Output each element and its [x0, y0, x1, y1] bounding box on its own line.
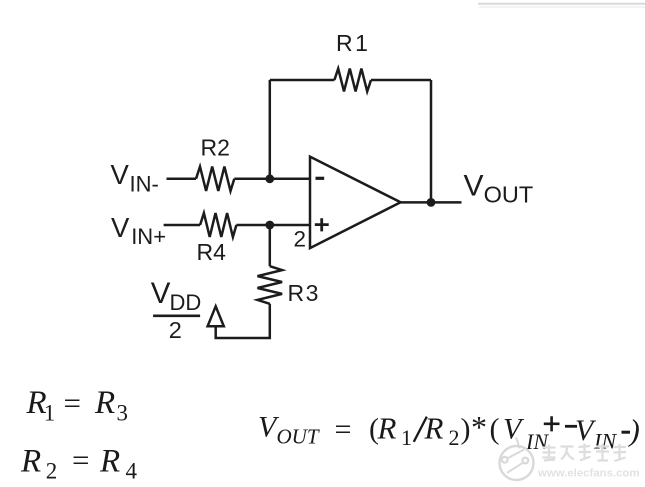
- svg-text:OUT: OUT: [484, 182, 534, 208]
- svg-text:1: 1: [44, 400, 56, 425]
- svg-text:www.elecfans.com: www.elecfans.com: [537, 468, 640, 480]
- wire: non-inverting node down to R3: [269, 225, 272, 266]
- svg-text:3: 3: [117, 400, 129, 425]
- svg-text:=: =: [335, 413, 352, 446]
- svg-text:V: V: [503, 413, 525, 446]
- node: non-inverting input junction: [265, 221, 274, 230]
- svg-text:IN: IN: [593, 429, 617, 454]
- resistor R4: [200, 213, 236, 237]
- svg-text:): ): [628, 413, 640, 448]
- svg-text:R: R: [20, 443, 41, 479]
- svg-text:2: 2: [294, 226, 307, 251]
- svg-text:=: =: [72, 443, 89, 478]
- svg-text:R2: R2: [201, 134, 230, 160]
- resistor R1: [334, 69, 371, 92]
- svg-text:OUT: OUT: [277, 425, 320, 449]
- wire: inverting node up to feedback loop: [269, 80, 272, 179]
- wire: feedback down to output node: [430, 80, 433, 202]
- resistor R2: [196, 167, 234, 191]
- svg-text:=: =: [64, 385, 81, 420]
- svg-text:R: R: [94, 385, 115, 421]
- svg-text:IN-: IN-: [130, 171, 159, 196]
- svg-text:2: 2: [169, 317, 182, 343]
- svg-text:IN+: IN+: [131, 224, 166, 249]
- wire: R4 to non-inverting node: [236, 224, 310, 227]
- svg-text:R1: R1: [336, 30, 370, 56]
- wire: VIN+ lead to R4: [164, 224, 201, 227]
- wire: R2 to inverting node: [234, 178, 310, 181]
- svg-text:1: 1: [401, 425, 412, 450]
- resistor R3: [258, 266, 283, 304]
- svg-text:2: 2: [449, 425, 460, 450]
- svg-text:R: R: [99, 443, 120, 479]
- op-amp non-inverting input plus sign: [315, 218, 329, 231]
- op-amp inverting input minus sign: [316, 177, 325, 180]
- svg-text:R: R: [424, 411, 444, 446]
- node: output junction: [427, 198, 436, 207]
- wire: op-amp output to VOUT: [401, 201, 462, 204]
- op-amp U1: [310, 157, 401, 249]
- svg-text:V: V: [111, 212, 130, 243]
- svg-text:*: *: [471, 409, 487, 445]
- svg-text:DD: DD: [170, 290, 202, 315]
- svg-text:R: R: [377, 411, 397, 446]
- svg-text:(: (: [490, 413, 500, 446]
- svg-text:R3: R3: [288, 280, 320, 306]
- svg-text:): ): [461, 413, 471, 446]
- power source VDD/2 arrow symbol: [208, 306, 224, 326]
- wire: feedback top left segment: [270, 79, 335, 82]
- svg-text:V: V: [464, 169, 484, 202]
- svg-text:2: 2: [46, 459, 58, 484]
- svg-text:4: 4: [126, 459, 138, 484]
- svg-text:R4: R4: [197, 239, 227, 265]
- svg-text:V: V: [151, 277, 171, 310]
- wire: feedback top right segment: [371, 79, 431, 82]
- svg-text:V: V: [111, 159, 130, 190]
- node: inverting input junction: [265, 174, 274, 183]
- wire: R3 bottom to VDD/2 source: [216, 304, 270, 338]
- wire: VIN- lead to R2: [167, 178, 197, 181]
